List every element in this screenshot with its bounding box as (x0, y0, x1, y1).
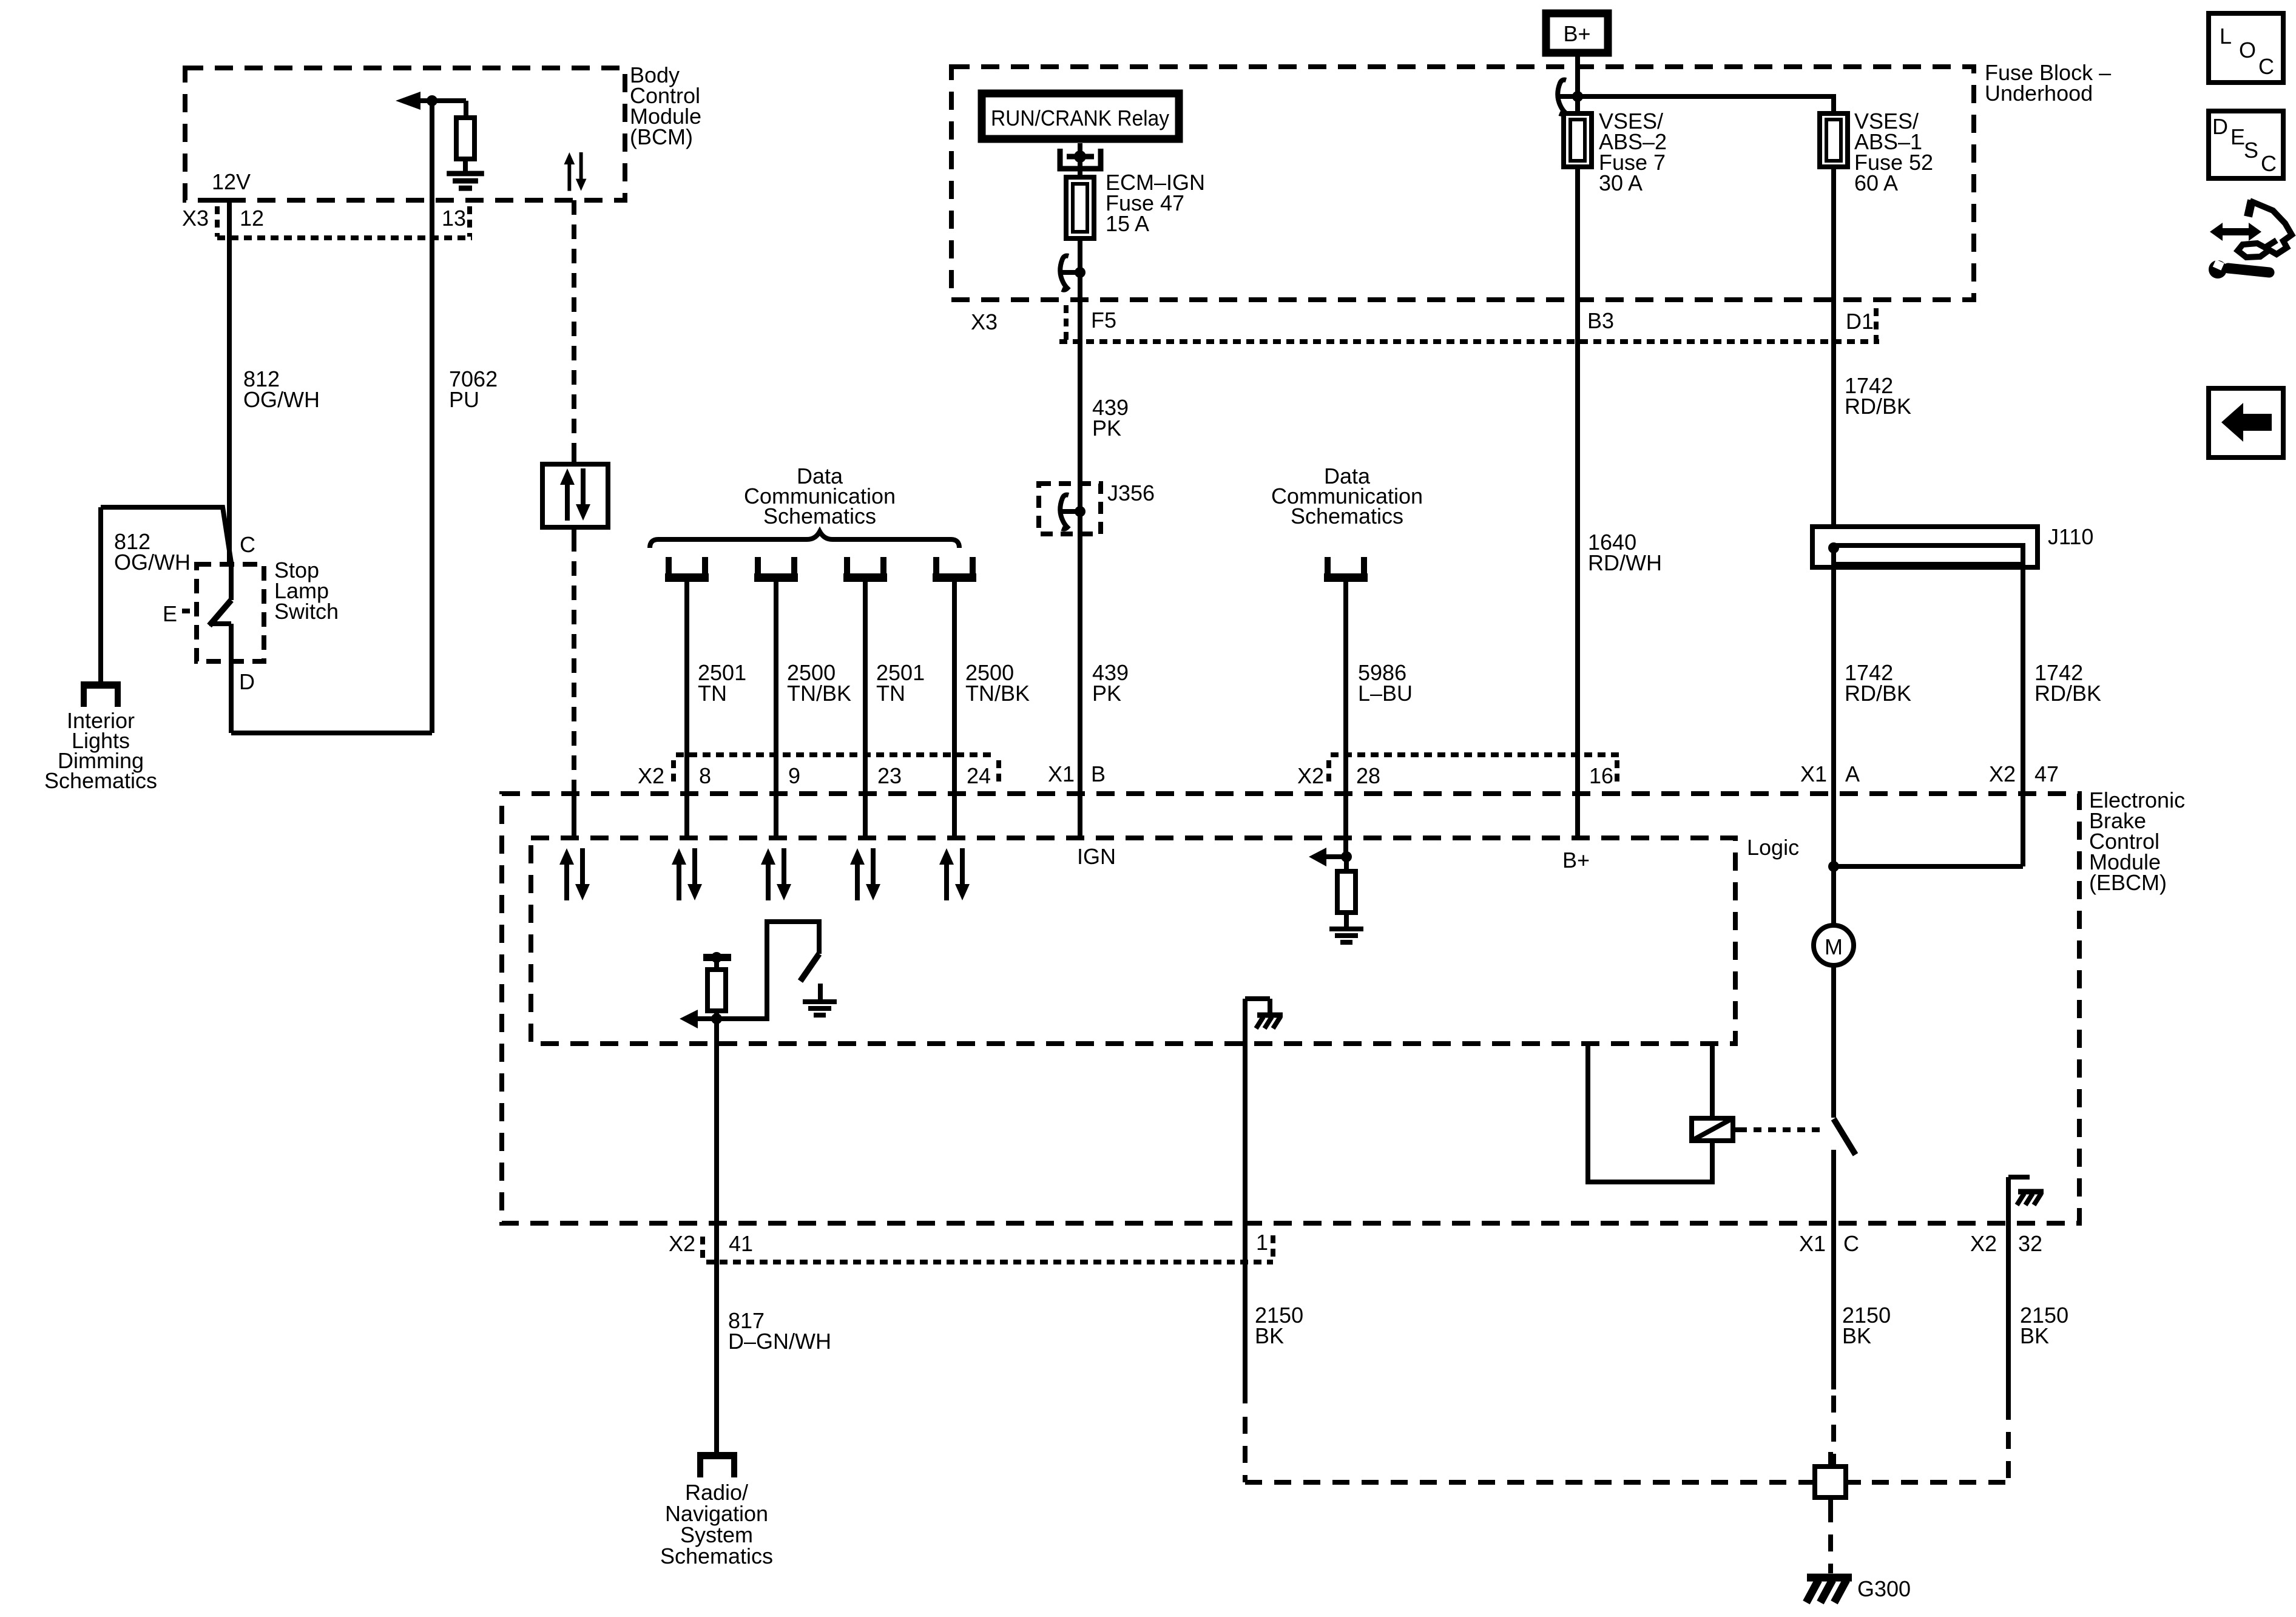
relay coil K1 (1692, 1118, 1739, 1141)
wire label 817 D-GN/WH (728, 1308, 831, 1354)
svg-text:Logic: Logic (1747, 835, 1799, 860)
svg-text:8: 8 (699, 763, 711, 788)
svg-text:15 A: 15 A (1106, 211, 1149, 236)
wire label 2500 TN/BK (787, 660, 851, 706)
wire resistor to ground (1344, 857, 1349, 927)
relay contact blade (motor feed switch) (1834, 1119, 1855, 1155)
logic input arrow (pin 28 node) (1309, 848, 1352, 866)
wire 817 D-GN/WH pin 41 (714, 1019, 719, 1452)
fuse block - underhood dashed box (951, 67, 1974, 300)
wire 812 OG/WH pin 12 to stop lamp switch C (227, 200, 232, 564)
svg-text:41: 41 (729, 1231, 753, 1256)
ground (pin 1 internal chassis ground) (1256, 1015, 1283, 1028)
radio/navigation label (660, 1480, 773, 1568)
stop lamp switch contacts (209, 564, 231, 733)
svg-text:16: 16 (1589, 763, 1613, 788)
BCM X3 connector bracket (pins 12 13) (217, 206, 472, 238)
logic up/down arrows (BCM serial data) (559, 848, 590, 900)
off-page connector (wire 2501 TN pin 8) (665, 557, 709, 578)
svg-text:28: 28 (1356, 763, 1380, 788)
wire 2500 TN/BK to pin 24 (952, 582, 957, 838)
svg-text:D: D (2212, 114, 2228, 139)
svg-text:OG/WH: OG/WH (114, 550, 191, 575)
wire stop lamp switch D to pin 13 wire (231, 731, 432, 735)
svg-text:G300: G300 (1857, 1576, 1911, 1601)
svg-text:X2: X2 (669, 1231, 695, 1256)
wire relay contact to EBCM pin C (1831, 1150, 1836, 1223)
fuse block bottom connector bracket (1059, 305, 1879, 348)
EBCM X2 connector bracket (pins 28 16) (1329, 755, 1619, 787)
ground (pin 28 pulldown) (1329, 929, 1363, 942)
ground (pin 32 internal chassis ground) (2017, 1192, 2044, 1205)
wire relay output to fuse 47 (1078, 157, 1082, 177)
svg-text:TN: TN (698, 681, 727, 706)
svg-text:X2: X2 (638, 763, 664, 788)
ground (BCM internal) (447, 174, 484, 188)
wire 439 PK pin F5 to J356 (1078, 342, 1082, 534)
svg-text:Schematics: Schematics (44, 768, 157, 793)
terminal E dashed stub (182, 609, 197, 613)
pin label X2 47 (1989, 761, 2059, 786)
svg-text:X1: X1 (1048, 761, 1075, 786)
wire 2150 BK pin 1 (solid) (1243, 1223, 1248, 1403)
serial data up/down arrows (inside BCM) (564, 152, 587, 191)
wire motor to relay contact (1831, 965, 1836, 1118)
pin label X1 B (1048, 761, 1106, 786)
svg-text:TN/BK: TN/BK (965, 681, 1030, 706)
wire label 812 OG/WH (branch) (114, 529, 191, 575)
wire fuse 47 to contact finger (1078, 238, 1082, 272)
svg-text:D1: D1 (1846, 309, 1874, 334)
wire label 1742 RD/BK (left branch) (1845, 660, 1911, 706)
EBCM label (2089, 788, 2185, 895)
serial data in-line connector box with arrows (542, 456, 608, 537)
fuse F47 ECM-IGN 15A (1066, 177, 1094, 238)
svg-text:M: M (1825, 934, 1843, 959)
svg-text:24: 24 (967, 763, 991, 788)
wire 2150 BK pin 1 to ground bus (dashed) (1245, 1417, 1800, 1482)
internal switch loop to ground (717, 922, 819, 1019)
resistor R2 (pin 41 driver) (707, 970, 726, 1011)
stop lamp switch label (274, 558, 339, 624)
svg-text:PK: PK (1092, 416, 1121, 441)
wire fuse 52 to pin D1 (1831, 167, 1836, 342)
svg-text:X2: X2 (1989, 761, 2016, 786)
svg-text:B+: B+ (1562, 848, 1590, 873)
svg-text:B3: B3 (1587, 308, 1614, 333)
wire label 2501 TN (23) (876, 660, 925, 706)
fuse F52 value label (1854, 109, 1933, 195)
icon vehicle data link with wrench (2209, 200, 2292, 279)
svg-text:C: C (240, 532, 255, 557)
wire 1742 RD/BK J110 to EBCM pin A (1831, 567, 1836, 866)
wire label 2500 TN/BK (24) (965, 660, 1030, 706)
ground (internal switch) (803, 984, 837, 1015)
svg-text:X3: X3 (182, 206, 209, 231)
serial data dashed wire BCM to EBCM (572, 200, 576, 456)
wire 2150 BK pin 32 (solid) (2006, 1223, 2011, 1403)
svg-text:A: A (1845, 761, 1860, 786)
pin label X2 32 (1970, 1231, 2042, 1256)
wire 2501 TN to pin 8 (684, 582, 689, 838)
wire B+ into fuse block (1575, 56, 1580, 113)
wire fuse 7 to pin B3 (1575, 167, 1580, 342)
wire label 2150 BK (pin 1) (1255, 1303, 1303, 1348)
wire label 2501 TN (698, 660, 746, 706)
pin label X1 A (1800, 761, 1860, 786)
svg-text:1: 1 (1256, 1230, 1268, 1255)
svg-text:B: B (1091, 761, 1106, 786)
icon box back arrow (2209, 388, 2283, 457)
fuse F7 VSES/ABS-2 30A (1564, 113, 1592, 167)
svg-text:BK: BK (1842, 1323, 1871, 1348)
svg-text:Schematics: Schematics (1291, 504, 1403, 528)
svg-text:Schematics: Schematics (763, 504, 876, 528)
logic up/down arrows (pin 24) (939, 848, 970, 900)
connector J356 (1039, 481, 1155, 534)
wire 2501 TN to pin 23 (863, 582, 868, 838)
contact finger at fuse 47 output (1060, 256, 1086, 290)
svg-text:RD/WH: RD/WH (1588, 550, 1662, 575)
fuse F47 value label (1106, 170, 1205, 236)
wire 5986 L-BU to pin 28 (1343, 582, 1348, 857)
wire 439 PK J356 to EBCM pin B (1078, 534, 1082, 838)
EBCM X2 connector bracket (pins 8 9 23 24) (674, 755, 999, 787)
svg-text:O: O (2239, 38, 2256, 62)
svg-text:E: E (163, 601, 177, 626)
pulldown resistor R1 (pin 28) (1337, 871, 1356, 913)
wire 2150 BK pin C (solid) (1831, 1223, 1836, 1389)
svg-text:L: L (2220, 24, 2232, 49)
wire branch to interior lights dimming (101, 507, 231, 681)
off-page connector (radio/navigation) (697, 1456, 737, 1477)
wire junction pins A and 47 inside EBCM (1828, 861, 2023, 872)
svg-text:(BCM): (BCM) (630, 124, 693, 149)
svg-text:Underhood: Underhood (1985, 81, 2093, 106)
svg-text:13: 13 (442, 206, 466, 231)
fuse block - underhood label (1985, 60, 2111, 106)
contact finger at B+ feed (1558, 80, 1583, 114)
stop lamp switch S2 dashed box (197, 564, 264, 661)
svg-text:X2: X2 (1970, 1231, 1997, 1256)
pin label X1 C (1799, 1231, 1859, 1256)
relay coil drive loop from logic (1588, 1044, 1712, 1182)
svg-text:S: S (2244, 138, 2258, 163)
internal ground wire (pin 1) (1245, 999, 1270, 1223)
wire 2500 TN/BK to pin 9 (774, 582, 778, 838)
relay U1 contact terminal bracket (1060, 143, 1101, 169)
svg-text:L–BU: L–BU (1358, 681, 1413, 706)
serial data dashed wire to EBCM (572, 537, 576, 783)
svg-text:Switch: Switch (274, 599, 339, 624)
fuse F52 VSES/ABS-1 60A (1820, 113, 1848, 167)
svg-text:X3: X3 (971, 309, 998, 334)
svg-text:X1: X1 (1800, 761, 1827, 786)
svg-text:B+: B+ (1563, 21, 1590, 46)
svg-text:J356: J356 (1107, 481, 1155, 505)
output arrow (pin 41 node) (680, 1010, 717, 1028)
svg-text:PK: PK (1092, 681, 1121, 706)
wire label 1742 RD/BK (upper) (1845, 373, 1911, 419)
icon box DESC (2209, 111, 2283, 178)
serial data wire entering EBCM (572, 783, 576, 838)
svg-text:J110: J110 (2048, 524, 2093, 549)
off-page connector (wire 2500 TN/BK pin 24) (933, 557, 976, 578)
svg-text:30 A: 30 A (1599, 170, 1643, 195)
battery feed terminal B+ (1546, 13, 1608, 53)
svg-text:BK: BK (1255, 1323, 1284, 1348)
svg-text:D–GN/WH: D–GN/WH (728, 1329, 831, 1354)
EBCM X2 bottom connector bracket (pins 41 and 1) (703, 1235, 1273, 1262)
wire B+ bus to ABS-1 fuse (1578, 96, 1834, 113)
svg-text:TN/BK: TN/BK (787, 681, 851, 706)
off-page connector (wire 5986 L-BU) (1324, 557, 1368, 578)
svg-text:RD/BK: RD/BK (1845, 681, 1911, 706)
EBCM logic dashed box (531, 838, 1735, 1044)
wire junction to motor (1831, 866, 1836, 925)
fuse F7 value label (1599, 109, 1667, 195)
svg-text:C: C (2261, 151, 2277, 176)
wire splice to G300 (dashed) (1828, 1505, 1833, 1573)
pump motor M (1814, 925, 1854, 965)
logic output node (pin 41 driver) (703, 952, 731, 970)
off-page connector (interior lights dimming) (81, 685, 121, 707)
wire label 1640 RD/WH (1588, 530, 1662, 575)
mechanical linkage coil to contact (1739, 1127, 1825, 1132)
wire 1742 RD/BK J110 to EBCM pin 47 (2021, 564, 2025, 866)
wire fuse 47 output to pin F5 (1078, 272, 1082, 342)
svg-text:C: C (2258, 54, 2274, 79)
internal chassis ground wire (pin 32) (2008, 1177, 2030, 1223)
svg-text:X1: X1 (1799, 1231, 1826, 1256)
svg-text:12V: 12V (212, 169, 251, 194)
splice pack J110 (1812, 524, 2093, 567)
EBCM dashed box (502, 794, 2079, 1223)
wire label 2150 BK (pin 32) (2020, 1303, 2068, 1348)
wire label 2150 BK (pin C) (1842, 1303, 1891, 1348)
svg-text:60 A: 60 A (1854, 170, 1898, 195)
data communication schematics label (right) (1271, 464, 1423, 528)
wire label 812 OG/WH (upper) (243, 366, 320, 412)
svg-text:RUN/CRANK Relay: RUN/CRANK Relay (991, 106, 1169, 130)
wire 7062 PU pin 13 (430, 101, 434, 733)
wire 2150 BK pin 32 to ground bus (dashed) (1861, 1403, 2008, 1482)
BCM dashed box (185, 68, 625, 200)
svg-text:C: C (1843, 1231, 1859, 1256)
svg-text:BK: BK (2020, 1323, 2049, 1348)
svg-text:12: 12 (240, 206, 264, 231)
node 12V (211, 169, 251, 200)
wire 2150 BK pin C to splice (dashed) (1831, 1396, 1836, 1467)
off-page connector (wire 2501 TN pin 23) (843, 557, 887, 578)
svg-text:RD/BK: RD/BK (1845, 394, 1911, 419)
logic up/down arrows (pin 23) (850, 848, 880, 900)
svg-text:TN: TN (876, 681, 905, 706)
BCM label (630, 62, 701, 149)
wire label 1742 RD/BK (right branch) (2034, 660, 2101, 706)
logic up/down arrows (pin 9) (761, 848, 791, 900)
junction below resistor R2 (711, 1011, 722, 1024)
svg-text:23: 23 (877, 763, 902, 788)
svg-text:IGN: IGN (1077, 844, 1116, 869)
wire label 7062 PU (449, 366, 498, 412)
off-page connector (wire 2500 TN/BK pin 9) (754, 557, 798, 578)
svg-text:RD/BK: RD/BK (2034, 681, 2101, 706)
svg-text:PU: PU (449, 387, 479, 412)
svg-text:47: 47 (2034, 761, 2059, 786)
ground G300 (1806, 1576, 1911, 1602)
svg-text:F5: F5 (1091, 308, 1116, 333)
wire label 439 PK (upper) (1092, 395, 1129, 441)
BCM internal resistor R3 (456, 101, 474, 173)
svg-text:9: 9 (788, 763, 800, 788)
brace for data communication wires (650, 532, 959, 548)
wire label 439 PK (lower) (1092, 660, 1129, 706)
svg-text:E: E (2230, 124, 2245, 149)
data communication schematics label (left) (744, 464, 896, 528)
BCM stop lamp output driver arrow (396, 92, 466, 110)
svg-text:X2: X2 (1297, 763, 1324, 788)
svg-text:OG/WH: OG/WH (243, 387, 320, 412)
relay U1 RUN/CRANK Relay (982, 93, 1179, 139)
splice S1 (ground bus) (1800, 1452, 1861, 1505)
svg-text:D: D (239, 669, 255, 694)
wire 1742 RD/BK pin D1 to J110 (1831, 342, 1836, 527)
wire 1640 RD/WH pin B3 to EBCM pin 16 (1575, 342, 1580, 838)
svg-text:Schematics: Schematics (660, 1544, 773, 1568)
wire label 5986 L-BU (1358, 660, 1413, 706)
icon box LOC (2209, 13, 2283, 83)
svg-text:(EBCM): (EBCM) (2089, 870, 2167, 895)
internal switch blade (800, 954, 819, 981)
interior lights dimming label (44, 708, 157, 793)
svg-text:32: 32 (2018, 1231, 2042, 1256)
logic up/down arrows (pin 8) (672, 848, 702, 900)
